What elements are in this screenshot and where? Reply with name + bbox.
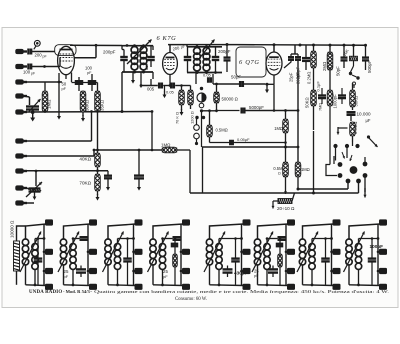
svg-text:50KΩ: 50KΩ xyxy=(85,99,90,111)
svg-text:50000 Ω: 50000 Ω xyxy=(222,97,239,102)
svg-text:pF: pF xyxy=(87,71,92,75)
svg-text:100: 100 xyxy=(23,70,31,75)
svg-text:20÷10 Ω: 20÷10 Ω xyxy=(277,206,295,211)
svg-text:1000pF: 1000pF xyxy=(333,94,338,109)
svg-text:35KΩ: 35KΩ xyxy=(100,99,105,111)
svg-text:50pF: 50pF xyxy=(231,75,241,80)
svg-text:25: 25 xyxy=(254,269,259,274)
svg-text:Consumo: 60 W.: Consumo: 60 W. xyxy=(175,297,207,302)
svg-text:200pF: 200pF xyxy=(218,49,231,54)
svg-text:0.05μF: 0.05μF xyxy=(237,137,250,142)
svg-text:UNDA RADIO: UNDA RADIO xyxy=(29,290,62,295)
svg-text:1MΩ: 1MΩ xyxy=(274,126,283,131)
svg-text:70KΩ: 70KΩ xyxy=(79,181,91,186)
svg-text:100pF: 100pF xyxy=(370,244,384,249)
svg-text:6 Q7G: 6 Q7G xyxy=(239,59,260,66)
svg-text:200pF: 200pF xyxy=(296,66,301,79)
svg-text:500pF: 500pF xyxy=(367,60,372,73)
svg-text:50KΩ: 50KΩ xyxy=(354,96,359,107)
svg-text:0.5M: 0.5M xyxy=(273,166,283,171)
svg-text:200: 200 xyxy=(35,53,43,58)
svg-text:1200 Ω: 1200 Ω xyxy=(190,111,195,124)
svg-text:200pF: 200pF xyxy=(103,50,116,55)
svg-text:pF: pF xyxy=(64,274,69,279)
svg-text:70 K Ω: 70 K Ω xyxy=(175,112,180,124)
svg-text:0.1μF: 0.1μF xyxy=(316,81,321,92)
svg-text:1MΩ: 1MΩ xyxy=(161,143,171,148)
svg-text:pF: pF xyxy=(43,55,47,59)
svg-text:2MΩ: 2MΩ xyxy=(322,61,327,71)
svg-text:pF: pF xyxy=(180,45,185,50)
svg-text:50KΩ: 50KΩ xyxy=(305,97,310,108)
svg-text:1MΩ: 1MΩ xyxy=(301,167,310,172)
svg-text:0.5MΩ: 0.5MΩ xyxy=(353,122,358,134)
svg-text:- Mod. R 54/3: - Mod. R 54/3 xyxy=(63,289,90,294)
svg-text:0.05: 0.05 xyxy=(166,90,175,95)
svg-text:pF: pF xyxy=(62,87,67,91)
svg-text:pF: pF xyxy=(163,274,168,279)
svg-text:10.000: 10.000 xyxy=(357,112,371,117)
svg-text:pF: pF xyxy=(254,274,259,278)
svg-text:pF: pF xyxy=(31,72,35,76)
svg-text:200: 200 xyxy=(144,63,149,70)
svg-text:50: 50 xyxy=(62,82,67,87)
svg-text:1MΩ: 1MΩ xyxy=(47,99,52,109)
svg-text:5000pF: 5000pF xyxy=(249,105,264,110)
svg-text:0.5MΩ: 0.5MΩ xyxy=(216,128,228,133)
svg-text:6 K7G: 6 K7G xyxy=(157,35,177,42)
svg-text:0.2MΩ: 0.2MΩ xyxy=(307,72,312,84)
svg-text:μF: μF xyxy=(366,118,371,123)
svg-text:50pF: 50pF xyxy=(336,66,341,76)
svg-text:Ω: Ω xyxy=(278,172,281,176)
svg-text:005: 005 xyxy=(147,87,155,92)
svg-text:40KΩ: 40KΩ xyxy=(79,157,91,162)
svg-text:430pF: 430pF xyxy=(234,271,248,276)
svg-text:25pF: 25pF xyxy=(289,72,294,82)
svg-text:0.05: 0.05 xyxy=(203,73,212,78)
svg-text:100: 100 xyxy=(85,66,93,71)
svg-text:10000 Ω: 10000 Ω xyxy=(10,220,15,238)
